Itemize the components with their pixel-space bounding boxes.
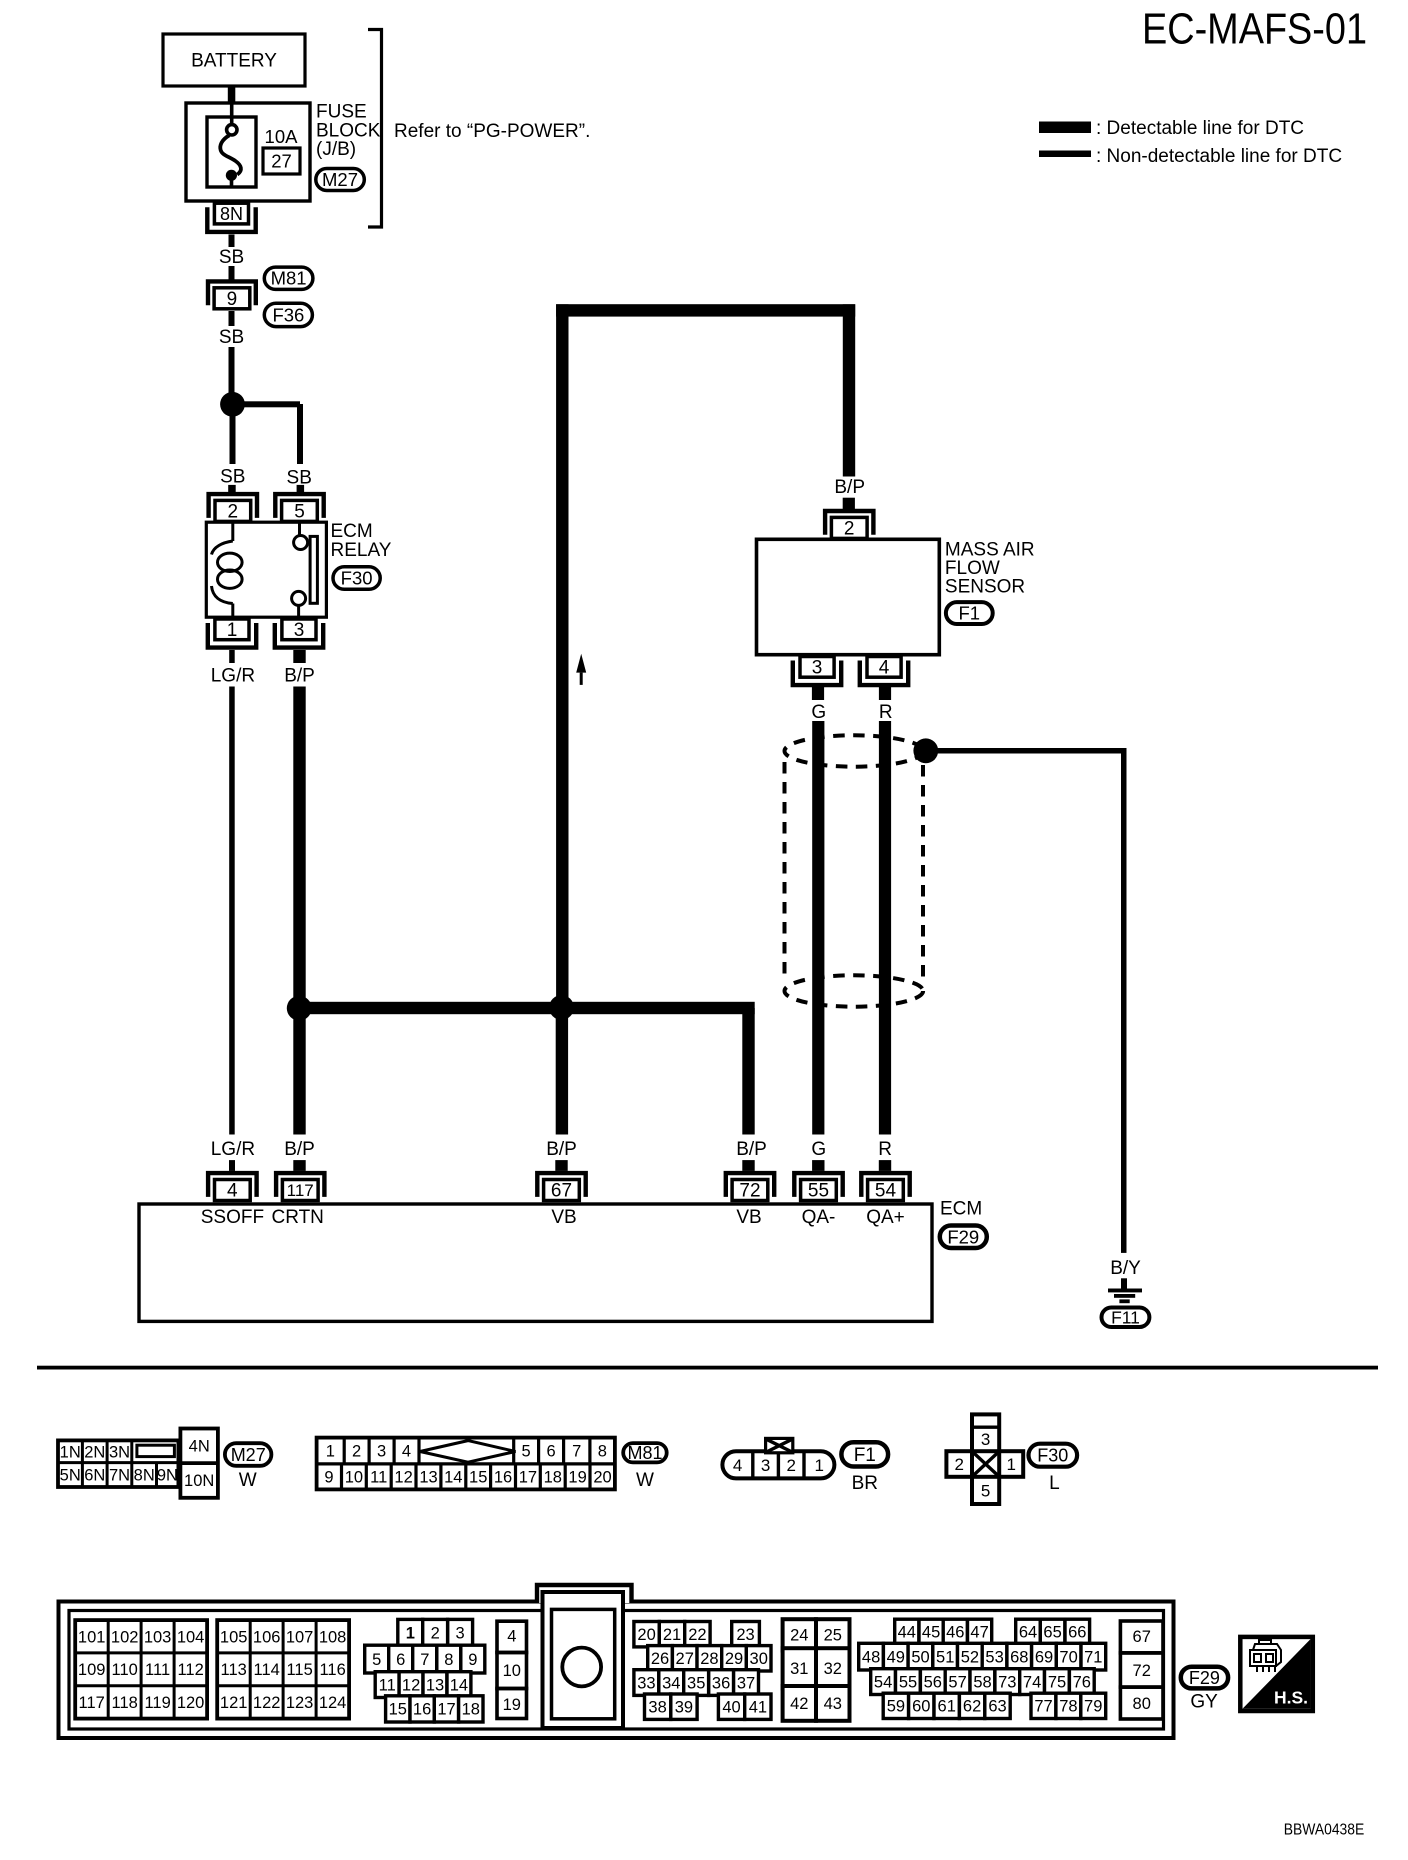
- svg-text:SB: SB: [220, 466, 245, 487]
- svg-text:4: 4: [879, 658, 890, 679]
- svg-text:W: W: [239, 1470, 257, 1491]
- svg-text:: Detectable line for DTC: : Detectable line for DTC: [1096, 118, 1304, 139]
- svg-text:12: 12: [394, 1468, 412, 1486]
- svg-text:25: 25: [824, 1627, 842, 1645]
- svg-text:13: 13: [426, 1676, 444, 1694]
- svg-text:121: 121: [220, 1694, 248, 1712]
- svg-text:55: 55: [808, 1181, 829, 1202]
- svg-text:B/P: B/P: [546, 1139, 577, 1160]
- svg-text:F29: F29: [947, 1226, 979, 1247]
- svg-text:CRTN: CRTN: [271, 1207, 323, 1228]
- svg-text:QA+: QA+: [866, 1207, 905, 1228]
- svg-text:56: 56: [924, 1673, 942, 1691]
- svg-text:120: 120: [177, 1694, 205, 1712]
- svg-text:76: 76: [1073, 1673, 1091, 1691]
- svg-text:21: 21: [663, 1626, 681, 1644]
- svg-text:1: 1: [406, 1625, 415, 1643]
- svg-text:109: 109: [78, 1661, 106, 1679]
- svg-text:22: 22: [688, 1626, 706, 1644]
- svg-text:LG/R: LG/R: [211, 665, 255, 686]
- svg-text:30: 30: [750, 1650, 768, 1668]
- svg-text:101: 101: [78, 1628, 106, 1646]
- svg-text:14: 14: [444, 1468, 462, 1486]
- svg-text:R: R: [878, 1139, 892, 1160]
- svg-text:102: 102: [111, 1628, 139, 1646]
- svg-text:31: 31: [790, 1660, 808, 1678]
- svg-text:107: 107: [286, 1628, 314, 1646]
- svg-text:104: 104: [177, 1628, 205, 1646]
- svg-text:117: 117: [287, 1181, 314, 1200]
- svg-text:4: 4: [507, 1627, 516, 1645]
- svg-text:8: 8: [598, 1443, 607, 1461]
- svg-text:119: 119: [144, 1694, 170, 1712]
- svg-text:78: 78: [1059, 1698, 1077, 1716]
- svg-text:54: 54: [874, 1673, 892, 1691]
- svg-text:27: 27: [271, 151, 292, 172]
- svg-text:50: 50: [911, 1648, 929, 1666]
- svg-text:SB: SB: [219, 247, 244, 268]
- svg-text:8N: 8N: [134, 1467, 155, 1485]
- svg-text:72: 72: [1133, 1662, 1151, 1680]
- svg-text:2: 2: [786, 1456, 795, 1475]
- svg-text:7: 7: [572, 1443, 581, 1461]
- svg-text:QA-: QA-: [802, 1207, 836, 1228]
- svg-text:: Non-detectable line for DTC: : Non-detectable line for DTC: [1096, 146, 1342, 167]
- svg-text:6: 6: [396, 1651, 405, 1669]
- svg-text:40: 40: [722, 1699, 740, 1717]
- svg-text:115: 115: [286, 1661, 312, 1679]
- svg-text:4: 4: [227, 1181, 238, 1202]
- svg-text:61: 61: [938, 1698, 956, 1716]
- svg-text:20: 20: [637, 1626, 655, 1644]
- svg-text:49: 49: [887, 1648, 905, 1666]
- svg-text:18: 18: [462, 1701, 480, 1719]
- svg-text:W: W: [636, 1470, 654, 1491]
- svg-text:20: 20: [593, 1468, 611, 1486]
- svg-text:BBWA0438E: BBWA0438E: [1284, 1821, 1365, 1838]
- svg-text:4: 4: [402, 1443, 411, 1461]
- svg-text:108: 108: [319, 1628, 347, 1646]
- svg-text:51: 51: [936, 1648, 954, 1666]
- svg-text:GY: GY: [1190, 1692, 1218, 1713]
- svg-text:15: 15: [389, 1701, 407, 1719]
- svg-text:79: 79: [1084, 1698, 1102, 1716]
- svg-text:F30: F30: [1037, 1446, 1068, 1466]
- svg-text:1: 1: [326, 1443, 335, 1461]
- svg-text:3: 3: [981, 1430, 990, 1449]
- svg-text:52: 52: [961, 1648, 979, 1666]
- svg-text:FUSE: FUSE: [316, 102, 367, 123]
- svg-text:9: 9: [324, 1468, 333, 1486]
- svg-text:24: 24: [790, 1627, 808, 1645]
- svg-text:19: 19: [503, 1696, 521, 1714]
- svg-text:64: 64: [1019, 1624, 1037, 1642]
- svg-text:11: 11: [379, 1676, 396, 1694]
- svg-text:16: 16: [413, 1701, 431, 1719]
- svg-text:16: 16: [494, 1468, 512, 1486]
- svg-text:41: 41: [749, 1699, 767, 1717]
- svg-text:5: 5: [294, 502, 305, 523]
- svg-text:L: L: [1049, 1473, 1060, 1494]
- svg-text:10A: 10A: [265, 126, 299, 147]
- svg-text:3: 3: [377, 1443, 386, 1461]
- svg-text:13: 13: [419, 1468, 437, 1486]
- svg-text:1: 1: [227, 620, 238, 641]
- svg-text:55: 55: [899, 1673, 917, 1691]
- svg-text:F29: F29: [1189, 1668, 1220, 1688]
- svg-text:11: 11: [370, 1468, 387, 1486]
- svg-text:3N: 3N: [109, 1443, 130, 1461]
- svg-text:19: 19: [568, 1468, 586, 1486]
- svg-text:67: 67: [551, 1181, 572, 1202]
- svg-text:39: 39: [675, 1699, 693, 1717]
- svg-text:F1: F1: [959, 603, 981, 624]
- svg-text:1: 1: [1006, 1455, 1015, 1474]
- svg-text:28: 28: [700, 1650, 718, 1668]
- svg-text:7N: 7N: [109, 1467, 130, 1485]
- svg-text:8N: 8N: [220, 204, 243, 224]
- svg-text:29: 29: [725, 1650, 743, 1668]
- svg-text:B/P: B/P: [284, 1139, 315, 1160]
- svg-text:RELAY: RELAY: [331, 540, 392, 561]
- svg-text:77: 77: [1034, 1698, 1052, 1716]
- svg-text:G: G: [811, 1139, 826, 1160]
- svg-text:75: 75: [1048, 1673, 1066, 1691]
- svg-text:14: 14: [450, 1676, 468, 1694]
- svg-text:5: 5: [981, 1481, 990, 1500]
- svg-text:35: 35: [687, 1674, 705, 1692]
- svg-text:5: 5: [522, 1443, 531, 1461]
- svg-text:124: 124: [319, 1694, 347, 1712]
- svg-text:17: 17: [437, 1701, 455, 1719]
- svg-text:M81: M81: [627, 1443, 662, 1463]
- svg-text:47: 47: [970, 1624, 988, 1642]
- svg-text:113: 113: [221, 1661, 247, 1679]
- svg-text:26: 26: [651, 1650, 669, 1668]
- svg-text:2: 2: [844, 519, 855, 540]
- svg-text:46: 46: [946, 1624, 964, 1642]
- svg-text:VB: VB: [736, 1207, 761, 1228]
- svg-text:LG/R: LG/R: [211, 1139, 255, 1160]
- svg-text:4N: 4N: [189, 1438, 210, 1456]
- svg-text:66: 66: [1068, 1624, 1086, 1642]
- svg-text:34: 34: [662, 1674, 680, 1692]
- svg-text:33: 33: [637, 1674, 655, 1692]
- svg-text:123: 123: [286, 1694, 314, 1712]
- svg-text:53: 53: [985, 1648, 1003, 1666]
- svg-text:10: 10: [345, 1468, 363, 1486]
- svg-text:118: 118: [112, 1694, 138, 1712]
- svg-text:17: 17: [519, 1468, 537, 1486]
- svg-text:15: 15: [469, 1468, 487, 1486]
- svg-text:54: 54: [875, 1181, 897, 1202]
- svg-text:F36: F36: [272, 304, 304, 325]
- svg-text:2: 2: [431, 1625, 440, 1643]
- svg-text:42: 42: [790, 1695, 808, 1713]
- svg-text:VB: VB: [551, 1207, 576, 1228]
- svg-text:9: 9: [227, 289, 238, 310]
- svg-text:H.S.: H.S.: [1274, 1688, 1308, 1708]
- svg-text:112: 112: [177, 1661, 203, 1679]
- svg-text:BATTERY: BATTERY: [191, 51, 277, 72]
- svg-text:F1: F1: [854, 1445, 876, 1466]
- svg-text:3: 3: [812, 658, 823, 679]
- svg-text:2: 2: [954, 1455, 963, 1474]
- svg-text:M27: M27: [231, 1445, 266, 1465]
- svg-text:M81: M81: [271, 268, 307, 289]
- svg-text:EC-MAFS-01: EC-MAFS-01: [1142, 4, 1367, 53]
- svg-text:65: 65: [1043, 1624, 1061, 1642]
- svg-text:5N: 5N: [60, 1467, 81, 1485]
- svg-text:67: 67: [1133, 1628, 1151, 1646]
- svg-text:3: 3: [456, 1625, 465, 1643]
- svg-text:2N: 2N: [84, 1443, 105, 1461]
- svg-text:M27: M27: [322, 169, 358, 190]
- svg-text:111: 111: [145, 1661, 170, 1679]
- svg-text:114: 114: [254, 1661, 280, 1679]
- svg-text:B/Y: B/Y: [1110, 1258, 1141, 1279]
- svg-text:9N: 9N: [157, 1467, 178, 1485]
- svg-text:SSOFF: SSOFF: [201, 1207, 264, 1228]
- svg-text:4: 4: [733, 1456, 742, 1475]
- svg-text:57: 57: [948, 1673, 966, 1691]
- svg-text:3: 3: [761, 1456, 770, 1475]
- svg-text:103: 103: [144, 1628, 172, 1646]
- svg-text:2: 2: [228, 502, 239, 523]
- svg-text:59: 59: [887, 1698, 905, 1716]
- svg-text:ECM: ECM: [331, 521, 373, 542]
- svg-text:37: 37: [737, 1674, 755, 1692]
- svg-text:12: 12: [402, 1676, 420, 1694]
- svg-text:44: 44: [898, 1624, 916, 1642]
- svg-text:117: 117: [79, 1694, 105, 1712]
- svg-text:32: 32: [824, 1660, 842, 1678]
- svg-text:(J/B): (J/B): [316, 139, 356, 160]
- svg-text:2: 2: [352, 1443, 361, 1461]
- svg-text:23: 23: [736, 1626, 754, 1644]
- svg-text:74: 74: [1023, 1673, 1041, 1691]
- svg-text:6N: 6N: [84, 1467, 105, 1485]
- svg-text:36: 36: [712, 1674, 730, 1692]
- svg-text:B/P: B/P: [736, 1139, 767, 1160]
- svg-text:106: 106: [253, 1628, 281, 1646]
- svg-text:70: 70: [1059, 1648, 1077, 1666]
- svg-text:38: 38: [648, 1699, 666, 1717]
- svg-text:68: 68: [1010, 1648, 1028, 1666]
- svg-text:18: 18: [544, 1468, 562, 1486]
- svg-text:BR: BR: [852, 1473, 878, 1494]
- svg-text:10N: 10N: [184, 1472, 214, 1490]
- svg-text:1N: 1N: [60, 1443, 81, 1461]
- svg-text:27: 27: [676, 1650, 694, 1668]
- svg-text:10: 10: [503, 1662, 521, 1680]
- svg-text:80: 80: [1133, 1695, 1151, 1713]
- svg-text:F11: F11: [1111, 1307, 1140, 1327]
- svg-text:62: 62: [963, 1698, 981, 1716]
- svg-text:SENSOR: SENSOR: [945, 577, 1025, 598]
- svg-text:105: 105: [220, 1628, 248, 1646]
- svg-text:SB: SB: [219, 327, 244, 348]
- svg-text:71: 71: [1084, 1648, 1102, 1666]
- svg-text:7: 7: [420, 1651, 429, 1669]
- svg-text:F30: F30: [341, 568, 373, 589]
- svg-text:122: 122: [253, 1694, 281, 1712]
- svg-text:58: 58: [973, 1673, 991, 1691]
- svg-text:48: 48: [862, 1648, 880, 1666]
- svg-text:1: 1: [814, 1456, 823, 1475]
- svg-text:73: 73: [998, 1673, 1016, 1691]
- svg-text:63: 63: [988, 1698, 1006, 1716]
- svg-text:3: 3: [294, 620, 305, 641]
- svg-text:9: 9: [468, 1651, 477, 1669]
- svg-text:116: 116: [319, 1661, 345, 1679]
- svg-text:Refer to “PG-POWER”.: Refer to “PG-POWER”.: [394, 121, 590, 142]
- svg-text:B/P: B/P: [834, 477, 865, 498]
- svg-text:ECM: ECM: [940, 1199, 982, 1220]
- svg-text:R: R: [879, 702, 893, 723]
- svg-text:69: 69: [1035, 1648, 1053, 1666]
- svg-text:72: 72: [739, 1181, 760, 1202]
- svg-text:G: G: [811, 702, 826, 723]
- svg-text:45: 45: [922, 1624, 940, 1642]
- svg-text:8: 8: [444, 1651, 453, 1669]
- svg-text:B/P: B/P: [284, 665, 315, 686]
- svg-text:6: 6: [547, 1443, 556, 1461]
- svg-text:5: 5: [372, 1651, 381, 1669]
- svg-text:60: 60: [912, 1698, 930, 1716]
- svg-text:43: 43: [824, 1695, 842, 1713]
- svg-text:110: 110: [112, 1661, 138, 1679]
